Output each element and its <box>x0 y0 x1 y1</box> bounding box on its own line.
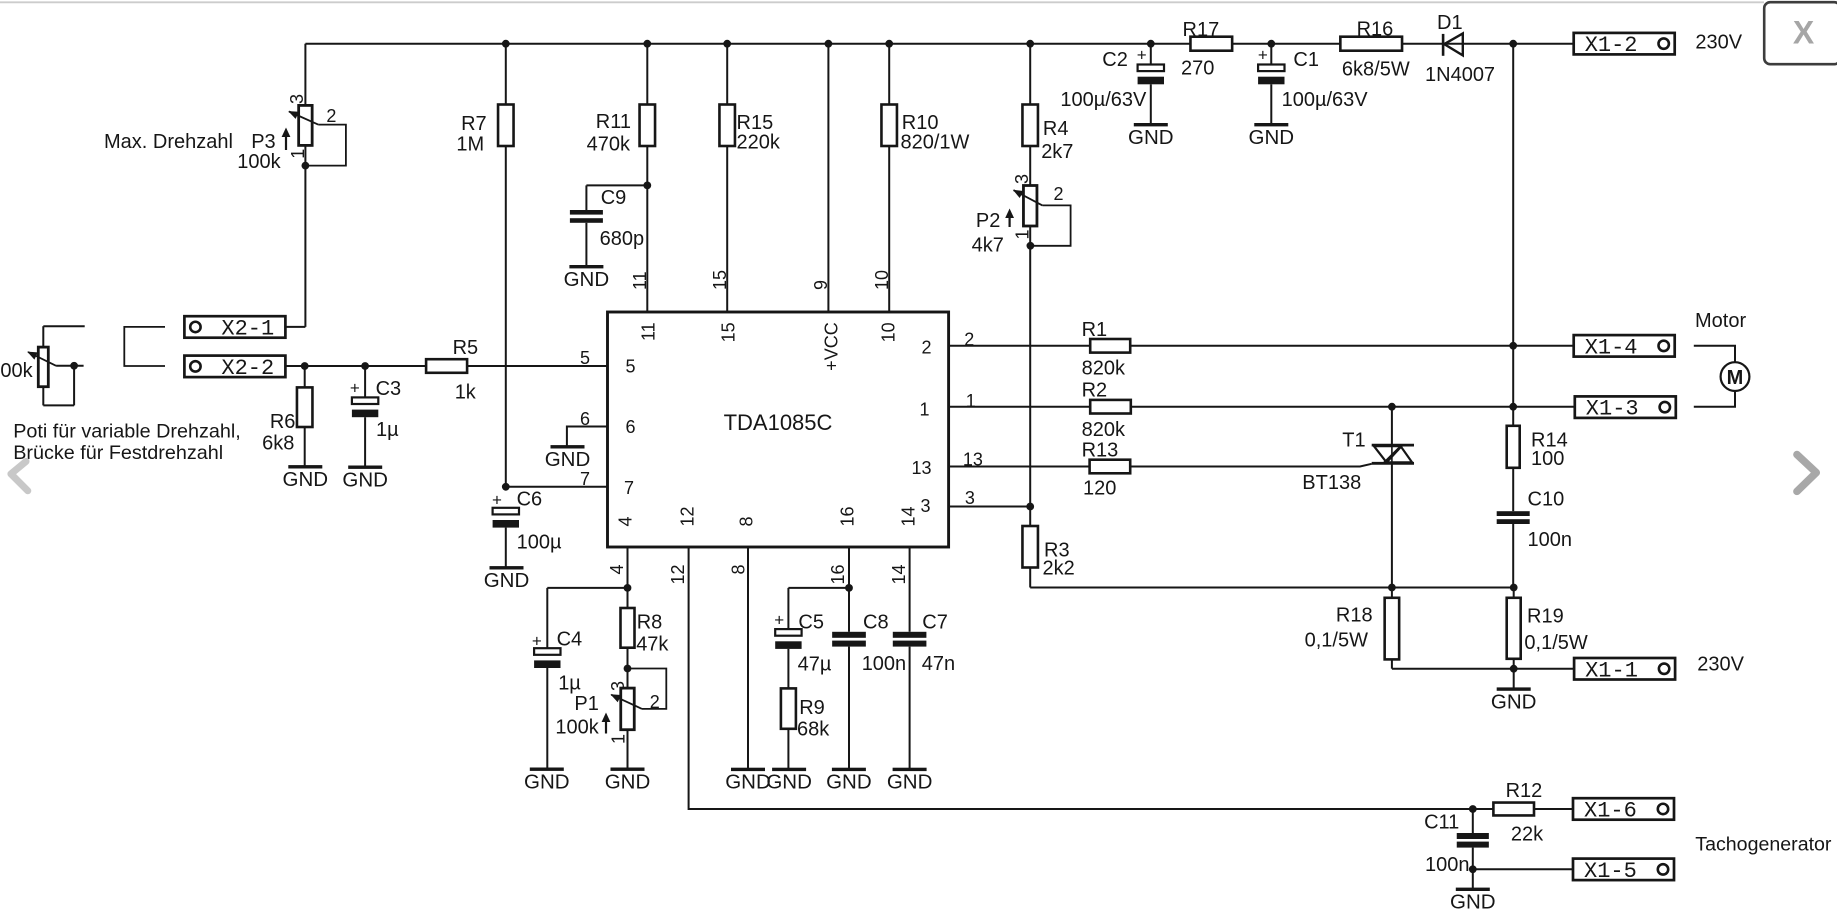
svg-text:+: + <box>1137 46 1147 65</box>
svg-text:220k: 220k <box>737 132 781 154</box>
svg-text:GND: GND <box>766 771 812 794</box>
svg-text:16: 16 <box>838 506 858 526</box>
svg-text:X1-4: X1-4 <box>1585 335 1638 360</box>
svg-text:GND: GND <box>887 771 933 794</box>
svg-text:8: 8 <box>737 516 757 526</box>
svg-text:6k8/5W: 6k8/5W <box>1342 59 1410 81</box>
svg-text:1: 1 <box>609 734 629 744</box>
svg-text:C10: C10 <box>1528 489 1565 511</box>
svg-text:1µ: 1µ <box>558 673 581 695</box>
svg-text:4: 4 <box>616 516 636 526</box>
svg-text:820k: 820k <box>1082 419 1126 441</box>
svg-text:R7: R7 <box>461 113 487 135</box>
svg-text:Brücke für Festdrehzahl: Brücke für Festdrehzahl <box>13 442 223 464</box>
svg-text:+VCC: +VCC <box>821 322 841 371</box>
svg-text:P2: P2 <box>976 210 1000 232</box>
svg-text:GND: GND <box>545 448 591 471</box>
svg-text:C4: C4 <box>557 629 583 651</box>
svg-text:1k: 1k <box>455 382 477 404</box>
svg-text:10: 10 <box>872 270 892 290</box>
svg-text:R8: R8 <box>637 612 663 634</box>
svg-text:1: 1 <box>1013 229 1033 239</box>
svg-text:Max. Drehzahl: Max. Drehzahl <box>104 131 233 153</box>
svg-text:R1: R1 <box>1082 319 1108 341</box>
svg-text:R18: R18 <box>1336 605 1373 627</box>
svg-text:16: 16 <box>828 565 848 585</box>
svg-text:X1-3: X1-3 <box>1586 397 1639 422</box>
svg-text:X1-2: X1-2 <box>1585 33 1638 58</box>
svg-text:14: 14 <box>898 506 918 526</box>
svg-text:TDA1085C: TDA1085C <box>724 410 833 435</box>
svg-text:0,1/5W: 0,1/5W <box>1305 630 1368 652</box>
svg-text:11: 11 <box>638 322 658 341</box>
svg-text:1: 1 <box>966 391 976 411</box>
svg-text:680p: 680p <box>600 228 645 250</box>
svg-text:270: 270 <box>1181 58 1214 80</box>
svg-text:120: 120 <box>1083 478 1116 500</box>
svg-text:100k: 100k <box>555 717 599 739</box>
svg-text:100n: 100n <box>1528 529 1573 551</box>
svg-text:2: 2 <box>650 692 660 712</box>
svg-text:1µ: 1µ <box>376 419 399 441</box>
svg-text:Tachogenerator: Tachogenerator <box>1695 834 1832 856</box>
svg-text:P1: P1 <box>574 693 598 715</box>
svg-text:GND: GND <box>826 771 872 794</box>
svg-text:0,1/5W: 0,1/5W <box>1524 632 1587 654</box>
svg-text:2: 2 <box>921 338 931 358</box>
svg-text:100µ: 100µ <box>517 532 562 554</box>
svg-text:+: + <box>774 611 784 630</box>
svg-text:C5: C5 <box>798 612 824 634</box>
svg-text:100n: 100n <box>1425 854 1470 876</box>
svg-text:12: 12 <box>677 506 697 526</box>
svg-text:4: 4 <box>607 565 627 575</box>
svg-text:R9: R9 <box>799 697 825 719</box>
svg-text:C1: C1 <box>1293 49 1319 71</box>
svg-text:820k: 820k <box>1082 358 1126 380</box>
svg-text:R13: R13 <box>1082 440 1119 462</box>
svg-text:8: 8 <box>728 565 748 575</box>
svg-text:GND: GND <box>1491 690 1537 713</box>
svg-text:3: 3 <box>287 94 307 104</box>
svg-text:GND: GND <box>605 770 651 793</box>
svg-text:100k: 100k <box>0 360 34 382</box>
svg-text:230V: 230V <box>1697 654 1744 676</box>
svg-text:15: 15 <box>719 322 739 342</box>
svg-text:R12: R12 <box>1506 780 1543 802</box>
svg-text:820/1W: 820/1W <box>901 132 970 154</box>
svg-text:X: X <box>1793 15 1815 51</box>
svg-text:7: 7 <box>624 478 634 498</box>
svg-text:3: 3 <box>608 681 628 691</box>
svg-text:100: 100 <box>1531 448 1564 470</box>
svg-text:100µ/63V: 100µ/63V <box>1060 89 1147 111</box>
svg-text:GND: GND <box>1249 126 1295 149</box>
svg-text:7: 7 <box>580 469 590 489</box>
svg-text:5: 5 <box>580 348 590 368</box>
svg-text:230V: 230V <box>1695 32 1742 54</box>
svg-text:GND: GND <box>342 468 388 491</box>
svg-text:1N4007: 1N4007 <box>1425 64 1495 86</box>
svg-text:22k: 22k <box>1511 824 1544 846</box>
svg-text:C9: C9 <box>601 187 627 209</box>
svg-text:4k7: 4k7 <box>972 235 1004 257</box>
svg-text:BT138: BT138 <box>1302 472 1361 494</box>
svg-text:100n: 100n <box>862 653 907 675</box>
svg-text:9: 9 <box>811 280 831 290</box>
svg-text:C11: C11 <box>1424 812 1459 834</box>
svg-text:R19: R19 <box>1527 606 1564 628</box>
svg-text:Motor: Motor <box>1695 310 1746 332</box>
svg-text:15: 15 <box>710 270 730 290</box>
svg-text:T1: T1 <box>1342 430 1365 452</box>
svg-text:X1-6: X1-6 <box>1584 798 1637 823</box>
svg-text:P3: P3 <box>251 131 275 153</box>
svg-text:X2-2: X2-2 <box>221 356 274 381</box>
svg-text:2: 2 <box>1054 184 1064 204</box>
svg-text:2: 2 <box>326 106 336 126</box>
svg-text:3: 3 <box>965 488 975 508</box>
svg-text:X1-1: X1-1 <box>1585 658 1638 683</box>
svg-text:47k: 47k <box>636 634 669 656</box>
svg-text:47µ: 47µ <box>798 654 832 676</box>
svg-text:C3: C3 <box>376 378 402 400</box>
svg-text:1: 1 <box>919 400 929 420</box>
svg-text:C2: C2 <box>1102 49 1128 71</box>
svg-text:6: 6 <box>626 417 636 437</box>
svg-text:R4: R4 <box>1043 118 1069 140</box>
svg-text:5: 5 <box>626 357 636 377</box>
svg-text:C8: C8 <box>863 612 889 634</box>
svg-text:GND: GND <box>484 569 530 592</box>
svg-text:10: 10 <box>879 322 899 342</box>
svg-text:68k: 68k <box>797 719 830 741</box>
svg-text:1M: 1M <box>456 134 484 156</box>
svg-text:+: + <box>492 491 502 510</box>
svg-text:470k: 470k <box>587 134 631 156</box>
svg-text:13: 13 <box>911 458 931 478</box>
svg-text:R11: R11 <box>596 111 631 133</box>
svg-text:GND: GND <box>1450 891 1496 909</box>
svg-text:GND: GND <box>283 468 329 491</box>
svg-text:X1-5: X1-5 <box>1584 859 1637 884</box>
svg-text:GND: GND <box>725 771 771 794</box>
svg-text:14: 14 <box>889 565 909 585</box>
svg-text:D1: D1 <box>1437 12 1463 34</box>
svg-text:11: 11 <box>630 271 650 290</box>
svg-text:12: 12 <box>668 565 688 585</box>
svg-text:R5: R5 <box>453 337 479 359</box>
svg-text:6k8: 6k8 <box>262 433 294 455</box>
svg-text:3: 3 <box>920 496 930 516</box>
svg-text:2k7: 2k7 <box>1041 141 1073 163</box>
svg-text:+: + <box>532 632 542 651</box>
svg-text:R6: R6 <box>270 411 296 433</box>
svg-text:100k: 100k <box>237 151 281 173</box>
svg-text:M: M <box>1727 367 1744 389</box>
svg-text:R2: R2 <box>1082 380 1108 402</box>
svg-text:C6: C6 <box>517 489 543 511</box>
svg-text:47n: 47n <box>922 653 955 675</box>
svg-text:100µ/63V: 100µ/63V <box>1282 89 1369 111</box>
svg-text:3: 3 <box>1012 174 1032 184</box>
svg-text:GND: GND <box>1128 126 1174 149</box>
svg-text:+: + <box>350 379 360 398</box>
svg-text:X2-1: X2-1 <box>221 316 274 341</box>
svg-text:Poti für variable Drehzahl,: Poti für variable Drehzahl, <box>13 421 241 443</box>
svg-text:C7: C7 <box>922 612 948 634</box>
svg-text:1: 1 <box>288 149 308 159</box>
svg-text:2k2: 2k2 <box>1043 558 1075 580</box>
svg-text:GND: GND <box>564 268 610 291</box>
svg-text:+: + <box>1258 46 1268 65</box>
svg-text:GND: GND <box>524 770 570 793</box>
